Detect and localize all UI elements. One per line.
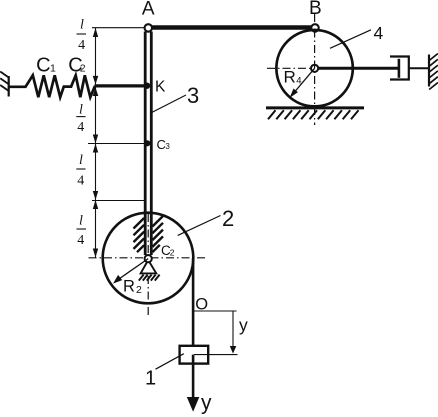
svg-text:l: l — [79, 213, 83, 228]
svg-text:4: 4 — [77, 233, 84, 248]
svg-text:R: R — [284, 68, 296, 87]
svg-text:1: 1 — [50, 63, 56, 75]
svg-text:1: 1 — [145, 368, 156, 390]
svg-text:l: l — [79, 153, 83, 168]
svg-text:2: 2 — [136, 284, 142, 296]
svg-text:4: 4 — [78, 38, 85, 53]
svg-text:y: y — [239, 315, 248, 335]
svg-text:4: 4 — [77, 120, 84, 135]
svg-text:B: B — [309, 0, 322, 19]
svg-text:2: 2 — [80, 63, 86, 75]
svg-text:4: 4 — [296, 75, 301, 86]
svg-text:y: y — [201, 392, 212, 415]
svg-text:A: A — [142, 0, 155, 20]
svg-text:O: O — [195, 296, 208, 314]
svg-text:3: 3 — [187, 83, 199, 108]
svg-text:C: C — [36, 55, 50, 77]
svg-text:R: R — [123, 277, 135, 295]
svg-text:3: 3 — [165, 142, 170, 151]
svg-text:l: l — [79, 102, 83, 117]
svg-text:K: K — [155, 79, 166, 96]
svg-text:4: 4 — [77, 173, 84, 188]
svg-text:2: 2 — [170, 247, 175, 257]
svg-text:2: 2 — [222, 206, 234, 231]
svg-text:4: 4 — [374, 23, 384, 43]
svg-text:l: l — [80, 18, 84, 33]
